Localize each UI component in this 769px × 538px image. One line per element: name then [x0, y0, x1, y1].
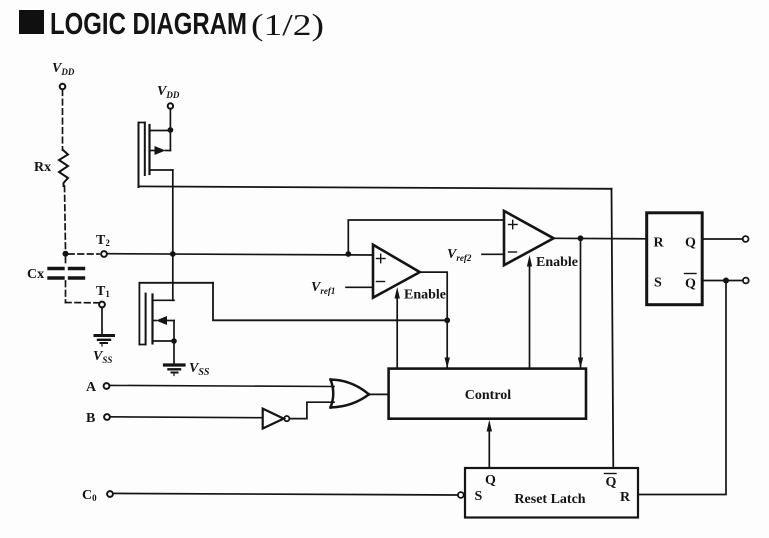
capacitor Cx (dashed plates): [49, 267, 86, 270]
svg-text:VSS: VSS: [189, 361, 210, 378]
NMOS gate lead bottom nub: [139, 344, 145, 346]
svg-text:T1: T1: [96, 284, 110, 299]
block Control: [389, 369, 586, 419]
resistor Rx: [59, 150, 68, 186]
PMOS drain stub: [150, 169, 173, 171]
ground at T1: [95, 334, 114, 337]
NMOS bulk-source vertical: [173, 321, 175, 342]
wire T1 to ground: [101, 308, 103, 335]
reset latch S input bubble: [458, 492, 464, 498]
wire PMOS drain down to T2 node: [172, 170, 174, 254]
wire control bottom to reset latch Q (up arrow into control): [488, 431, 490, 468]
U1 plus marker: [377, 258, 386, 260]
NMOS gate bar: [145, 294, 147, 345]
PMOS gate lead top connector: [139, 122, 145, 124]
svg-text:Vref2: Vref2: [447, 247, 472, 263]
svg-text:Q: Q: [606, 475, 617, 490]
wire dashed Cx to corner: [65, 281, 67, 303]
junction dot PMOS source node: [168, 127, 174, 133]
arrow into control top (U1 output): [445, 358, 450, 369]
U2 plus marker: [509, 224, 518, 226]
wire U1 output right then down to control: [420, 272, 447, 367]
NMOS drain stub: [153, 299, 175, 301]
svg-text:R: R: [620, 490, 631, 505]
terminal VDD PMOS: [168, 103, 173, 108]
wire dashed Rx to node T2: [65, 186, 66, 250]
svg-text:Q: Q: [685, 277, 696, 292]
terminal Qbar output: [743, 278, 749, 284]
wire RS latch Q to output terminal: [702, 238, 743, 240]
junction dot Qbar feedback: [723, 278, 729, 284]
wire dashed junction to T2 terminal: [69, 253, 100, 255]
svg-text:C0: C0: [82, 488, 97, 503]
wire branch up and right to comparator U2 + input: [348, 220, 504, 254]
PMOS gate lead vertical: [138, 123, 140, 188]
terminal Q output: [743, 236, 749, 242]
wire NMOS gate right then down then right to comp1 output node: [213, 283, 447, 321]
wire dashed corner to T1 terminal: [66, 302, 99, 304]
wire reset latch Qbar up to PMOS gate wire: [612, 189, 614, 468]
ground at NMOS (VSS): [165, 363, 185, 366]
wire Vref1 to U1 - input: [346, 286, 373, 288]
svg-text:Enable: Enable: [404, 288, 446, 303]
wire C0 to reset latch S: [113, 493, 458, 495]
OR gate U4: [331, 380, 370, 408]
wire dashed junction to Cx: [65, 257, 67, 265]
terminal VDD left: [60, 84, 66, 90]
svg-text:T2: T2: [96, 233, 110, 248]
PMOS channel bar: [148, 125, 150, 174]
inverter U3: [263, 409, 284, 429]
terminal C0: [107, 491, 113, 497]
wire enable U1 from control: [396, 296, 398, 368]
arrow enable U2 (up into comparator): [527, 255, 532, 267]
svg-text:Enable: Enable: [536, 255, 578, 270]
junction dot U1 output and NMOS gate wire: [444, 317, 450, 323]
svg-text:LOGIC DIAGRAM: LOGIC DIAGRAM: [50, 6, 247, 41]
transistor Q2 NMOS (lower): [139, 283, 213, 345]
terminal B: [104, 414, 110, 420]
block Reset Latch: [465, 468, 638, 518]
svg-text:VSS: VSS: [93, 349, 112, 365]
U1 minus marker: [377, 281, 385, 283]
junction dot NMOS source node: [171, 338, 177, 344]
block RS latch: [647, 213, 703, 305]
terminal T1: [99, 302, 105, 308]
svg-text:Q: Q: [685, 236, 696, 251]
svg-text:R: R: [654, 236, 665, 251]
terminal T2: [101, 251, 107, 257]
wire reset latch R to RS latch Qbar: [638, 281, 726, 495]
svg-text:B: B: [86, 411, 95, 426]
wire dashed VDD to Rx: [62, 90, 64, 150]
wire RS latch Qbar to output terminal: [702, 280, 743, 282]
wire VDD to PMOS source: [169, 109, 171, 128]
PMOS bulk stub with arrow: [150, 150, 155, 152]
wire drain node down to NMOS drain: [172, 254, 174, 300]
svg-text:(1/2): (1/2): [251, 7, 324, 42]
NMOS channel bar: [151, 295, 153, 344]
title block square: [19, 10, 44, 34]
svg-text:Cx: Cx: [27, 267, 44, 282]
wire U2 output down into control: [580, 238, 582, 367]
svg-text:Vref1: Vref1: [311, 280, 335, 296]
svg-text:VDD: VDD: [52, 61, 75, 77]
wire B to inverter: [110, 416, 263, 419]
svg-text:Reset Latch: Reset Latch: [514, 492, 585, 507]
PMOS gate bar: [144, 123, 146, 176]
PMOS source-to-bulk vertical: [169, 130, 171, 151]
NMOS bulk stub with arrow: [153, 320, 157, 322]
terminal A: [104, 383, 110, 389]
arrow enable U1 (up into comparator): [395, 287, 400, 299]
svg-text:VDD: VDD: [157, 84, 180, 100]
junction dot at T2 branch: [63, 251, 69, 257]
wire A to OR gate: [110, 385, 335, 386]
op-amp U2 comparator 2: [504, 211, 554, 265]
wire PMOS gate to reset latch Qbar (long top wire): [139, 186, 612, 188]
arrow into control top (U2 output): [578, 358, 583, 369]
op-amp U1 comparator 1: [373, 245, 420, 298]
U2 minus marker: [509, 251, 517, 253]
svg-text:Control: Control: [465, 388, 512, 403]
PMOS source stub: [150, 130, 171, 132]
wire NMOS source to ground: [173, 341, 175, 363]
svg-text:Q: Q: [485, 473, 496, 488]
junction dot U2 output branch: [578, 235, 584, 241]
junction dot T2 line to comp2 branch: [345, 251, 351, 257]
wire enable U2 from control: [529, 264, 531, 368]
junction dot drain at T2 line: [170, 251, 176, 257]
svg-text:Rx: Rx: [34, 160, 51, 175]
wire OR output to control: [369, 393, 389, 395]
NMOS gate lead top horizontal: [139, 282, 213, 284]
wire T2 line to comparator U1 + input: [107, 254, 373, 255]
inverter U3 bubble: [284, 416, 289, 421]
wire U2 output to RS latch R input: [554, 237, 647, 240]
NMOS source stub: [153, 340, 175, 342]
wire Vref2 to U2 - input: [482, 253, 504, 255]
NMOS gate lead left vertical: [138, 283, 140, 345]
transistor Q1 PMOS (upper): [139, 123, 173, 188]
wire inverter output to OR gate: [290, 402, 335, 418]
svg-text:S: S: [475, 489, 483, 504]
svg-text:S: S: [654, 276, 662, 291]
svg-text:A: A: [86, 380, 97, 395]
